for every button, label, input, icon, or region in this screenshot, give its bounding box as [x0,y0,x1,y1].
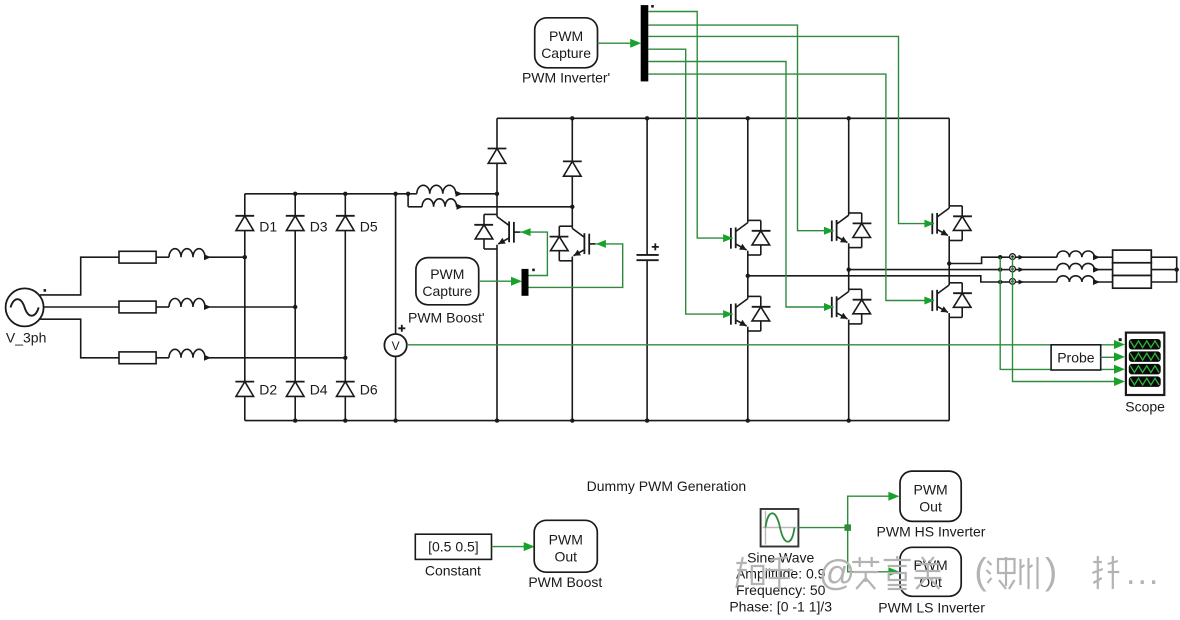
wire leg B output [849,269,1001,271]
current sensor w phase [1010,279,1016,285]
dot marker demux boost [532,269,535,272]
label D4 [310,382,328,398]
wire Probe to scope [1101,352,1125,361]
node bottom rail at D4 [293,418,297,422]
diode D1 [235,216,254,231]
load inductor w [1057,276,1113,285]
wire boost leg1 mid [496,163,498,214]
svg-text:): ) [1045,551,1057,592]
diode D6 [336,382,355,397]
label Scope [1125,398,1165,414]
svg-text:V_3ph: V_3ph [6,330,46,346]
dc bottom rail wire [245,420,949,422]
wire D1 column upper [244,194,246,216]
igbt QC low side [926,283,972,318]
node top rail at boost inductor split [406,192,410,196]
wire D6 column lower [344,396,346,420]
svg-text:D6: D6 [360,382,378,398]
wire boost leg1 top [496,118,498,148]
node tap u phase [998,255,1002,259]
svg-text:Capture: Capture [541,45,591,61]
capacitor C1 [637,255,659,260]
wire voltmeter upper [395,194,397,334]
block Probe [1051,345,1101,370]
current sensor u phase [1010,254,1016,260]
node dc top rail leg B [847,116,851,120]
svg-text:D1: D1 [259,219,277,235]
plus sign voltmeter [398,325,405,332]
wire current sensors to scope [1013,257,1126,386]
wire gate signal 5 [648,62,834,312]
boost inductor L1 [417,185,497,197]
block PWM Capture inverter [535,18,598,68]
wire gate signal 2 [648,25,834,235]
block PWM Out HS [900,471,961,521]
ac source V_3ph [6,288,44,326]
wire u to star [1151,257,1176,269]
wire leg C output [949,257,1000,263]
wire v to sensor [1000,269,1010,271]
label V_3ph [6,330,46,346]
wire gate signal 3 [648,36,934,227]
svg-text:Probe: Probe [1057,350,1095,366]
wire to PWM HS Inverter [848,492,900,528]
wire split down to boost inductor L2 [407,194,409,207]
node top rail at D5 [343,192,347,196]
wire voltmeter to scope [407,340,1125,349]
svg-text:Constant: Constant [425,563,481,579]
wire voltage tap to scope [1000,257,1125,374]
wire split to boost inductor L1 [408,193,417,195]
dot marker scope [1119,338,1122,341]
voltmeter V1 [384,334,406,356]
label PWM Boost [528,574,602,590]
wire w to sensor [1000,281,1010,283]
wire gate signal boost 2 [529,240,623,288]
label PWM Inverter' [522,69,610,85]
node top rail at D3 [293,192,297,196]
node bottom rail at D6 [343,418,347,422]
igbt QB high side [826,213,872,248]
wire phase C from source [40,319,119,358]
svg-text:Scope: Scope [1125,398,1165,414]
block Constant [415,534,491,559]
igbt QA low side [725,296,771,331]
node L1 at boost leg1 [495,192,499,196]
node phase A at D1 leg [243,255,247,259]
wire boost leg1 bottom [496,249,498,421]
load resistor w [1113,276,1152,289]
wire leg B middle [848,248,850,290]
wire boost leg2 bottom [571,261,573,421]
boost diode D7 [488,149,507,164]
wire gate signal 6 [648,74,934,304]
node bottom rail at boost leg1 [495,418,499,422]
wire to boost inductor L2 [408,206,422,208]
svg-text:D4: D4 [310,382,328,398]
igbt Q2 boost [550,226,596,261]
svg-text:Phase: [0 -1 1]/3: Phase: [0 -1 1]/3 [729,599,832,615]
annotation Amplitude [736,566,826,582]
label PWM LS Inverter [878,600,985,616]
inductor phase B [169,299,295,310]
annotation Frequency [736,582,826,598]
wire capacitor bottom [646,260,648,420]
resistor phase B [119,301,156,313]
wire to PWM LS Inverter [848,528,900,577]
label Constant [425,563,481,579]
wire leg A lower [747,331,749,421]
node bottom rail at inverter leg A [746,418,750,422]
node leg B output [847,267,851,271]
wire sensor u to inductor [1015,255,1057,260]
label D5 [360,219,378,235]
node top rail at voltmeter tap [393,192,397,196]
label D2 [259,382,277,398]
wire Constant to PWM Boost [492,542,535,551]
wire leg A middle [747,255,749,296]
wire boost leg2 mid [571,176,573,226]
svg-text:Out: Out [919,498,942,514]
resistor phase C [119,352,156,364]
node star point [1175,267,1179,271]
wire gate signal 1 [648,12,733,243]
node leg C output [947,261,951,265]
diode D3 [286,216,305,231]
wire B resistor to inductor [156,306,169,308]
svg-text:D5: D5 [360,219,378,235]
node leg A output [746,274,750,278]
wire leg A upper [747,118,749,220]
igbt Q1 boost [474,214,520,249]
svg-text:PWM Boost: PWM Boost [528,574,602,590]
dot marker demux inverter [651,5,654,8]
block PWM Capture boost [416,258,479,305]
plus sign capacitor [652,243,659,250]
svg-text:PWM Boost': PWM Boost' [408,310,485,326]
node bottom rail at capacitor [645,418,649,422]
watermark [736,551,1160,593]
svg-text:(: ( [974,551,987,592]
wire v to star [1151,269,1176,271]
svg-text:Dummy PWM Generation: Dummy PWM Generation [587,478,746,494]
bridge top rail wire [245,193,408,195]
load inductor v [1057,263,1113,272]
svg-text:Frequency: 50: Frequency: 50 [736,582,826,598]
svg-text:V: V [392,339,400,353]
block Sine Wave [761,509,799,547]
annotation Phase [729,599,832,615]
diode D2 [235,382,254,397]
wire sensor v to inductor [1015,267,1057,272]
svg-text:[0.5 0.5]: [0.5 0.5] [428,539,479,555]
svg-text:PWM: PWM [549,531,583,547]
wire leg B upper [848,118,850,213]
wire boost leg2 top [571,118,573,161]
load resistor v [1113,263,1152,276]
svg-text:PWM HS Inverter: PWM HS Inverter [877,524,986,540]
load resistor u [1113,250,1152,263]
label Sine Wave [747,549,814,565]
wire leg C middle [948,241,950,283]
load inductor u [1057,251,1113,260]
wire C resistor to inductor [156,357,169,359]
node tap v phase [998,267,1002,271]
svg-text:Amplitude: 0.9: Amplitude: 0.9 [736,566,826,582]
label Dummy PWM Generation [587,478,746,494]
diode D5 [336,216,355,231]
wire Sine Wave output [798,527,847,529]
node dc top rail boost leg2 [570,116,574,120]
svg-text:PWM LS Inverter: PWM LS Inverter [878,600,985,616]
wire u to sensor [1000,256,1010,258]
wire D3-D4 column middle [294,231,296,382]
igbt QB low side [826,289,872,324]
svg-text:PWM: PWM [549,28,583,44]
igbt QC high side [926,206,972,241]
wire PWM Capture boost to demux [479,277,522,286]
resistor phase A [119,251,156,263]
svg-text:D3: D3 [310,219,328,235]
node bottom rail at voltmeter [393,418,397,422]
wire phase A from source [40,257,119,295]
svg-text:D2: D2 [259,382,277,398]
wire PWM Capture to demux [598,39,642,48]
dc top rail wire [497,117,949,119]
diode D4 [286,382,305,397]
demux PWM inverter [641,5,649,81]
boost inductor L2 [422,199,572,210]
wire D3 column upper [294,194,296,216]
wire w to star [1151,270,1176,282]
node dc top rail capacitor [645,116,649,120]
inductor phase A [169,249,245,261]
label D6 [360,382,378,398]
svg-text:PWM: PWM [913,481,947,497]
demux PWM boost [522,269,529,296]
wire D4 column lower [294,396,296,420]
svg-text:PWM Inverter': PWM Inverter' [522,69,610,85]
boost diode D8 [563,161,582,176]
wire gate signal 4 [648,49,733,318]
current sensor v phase [1010,266,1016,272]
wire leg A output [748,276,1000,282]
wire D2 column lower [244,396,246,420]
node bottom rail at boost leg2 [570,418,574,422]
svg-text:PWM: PWM [430,266,464,282]
polarity dot at source [44,289,47,292]
svg-text:@: @ [819,552,856,593]
wire D5-D6 column middle [344,231,346,382]
wire A resistor to inductor [156,256,169,258]
block PWM Out boost [534,520,597,572]
wire leg C lower [948,317,950,420]
igbt QA high side [725,220,771,255]
scope block [1126,333,1164,395]
wire voltmeter lower [395,356,397,420]
label PWM HS Inverter [877,524,986,540]
svg-text:...: ... [1126,554,1160,592]
wire gate signal boost 1 [520,228,548,275]
wire D5 column upper [344,194,346,216]
node dc top rail leg A [746,116,750,120]
label PWM Boost' [408,310,485,326]
wire D1-D2 column middle [244,231,246,382]
wire leg B lower [848,324,850,421]
label D3 [310,219,328,235]
label D1 [259,219,277,235]
node tap w phase [998,280,1002,284]
wire phase B from source [44,306,119,308]
node sine branch [844,524,851,531]
node phase B at D3 leg [293,305,297,309]
wire leg C upper [948,118,950,206]
block PWM Out LS [900,547,961,596]
wire capacitor top [646,118,648,255]
wire sensor w to inductor [1015,280,1057,285]
inductor phase C [169,349,345,361]
svg-text:Capture: Capture [422,283,472,299]
node bottom rail at inverter leg B [847,418,851,422]
node phase C at D5 leg [343,356,347,360]
svg-text:Out: Out [554,548,577,564]
node L2 at boost leg2 [570,205,574,209]
